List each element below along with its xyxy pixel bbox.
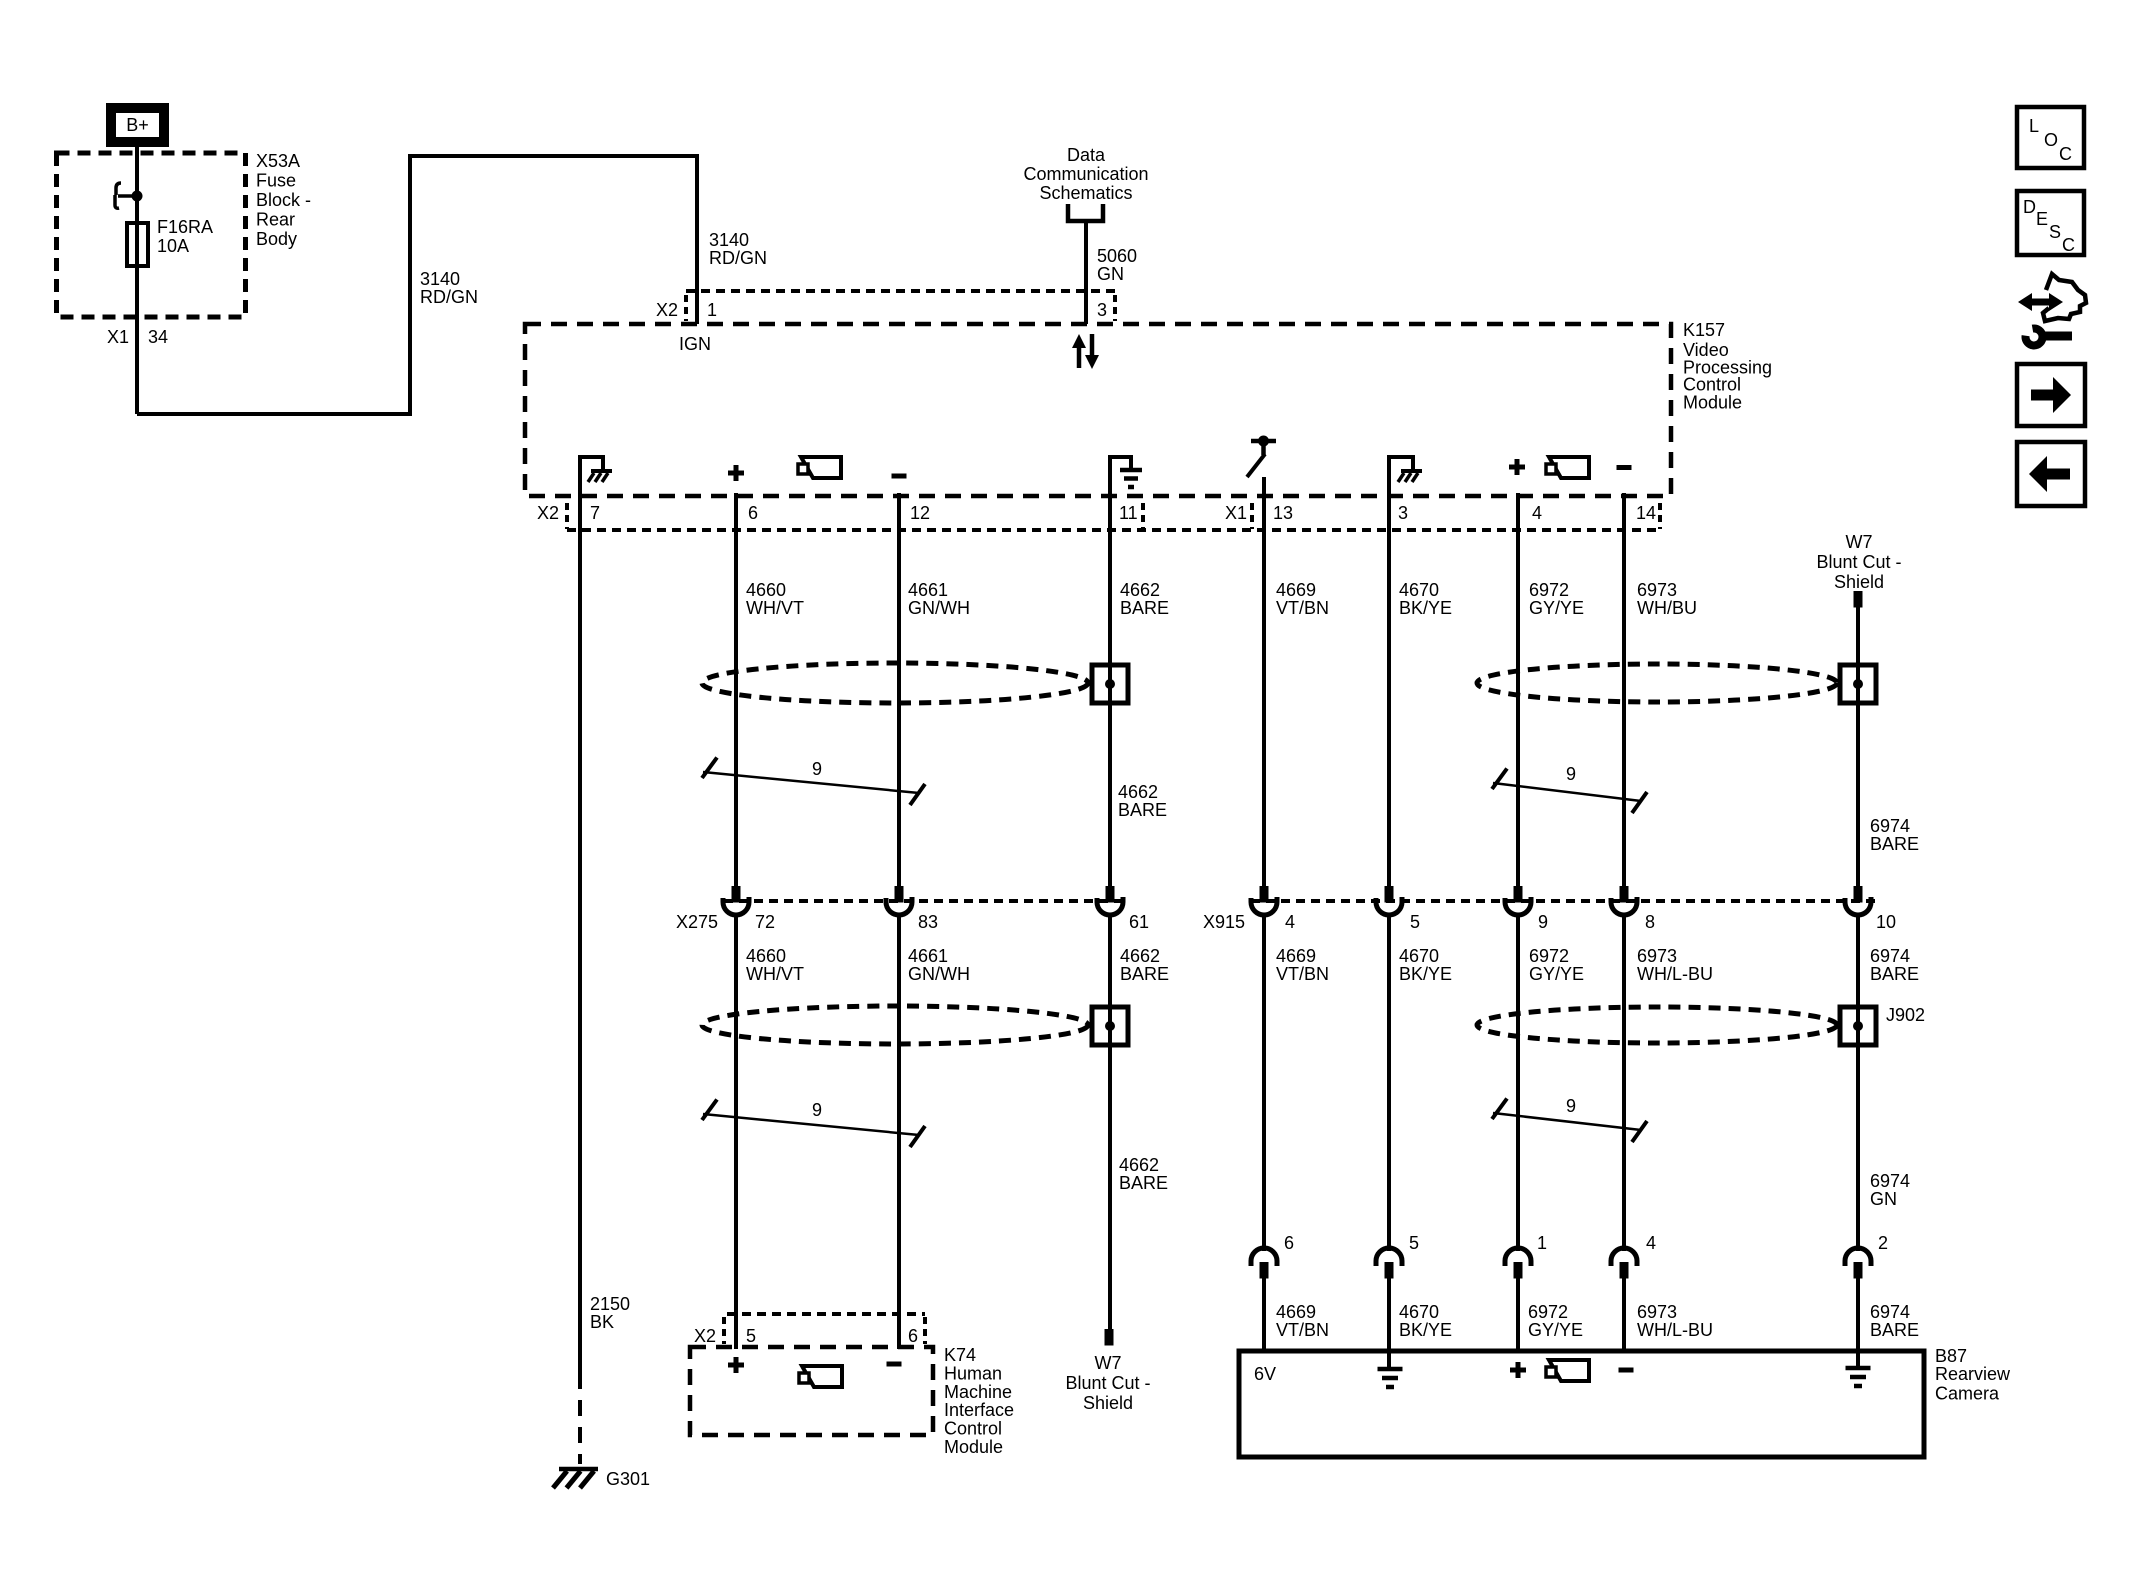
svg-text:B+: B+ (126, 115, 149, 135)
label W7 Blunt Cut Shield (top) (1816, 532, 1901, 592)
svg-text:2150: 2150 (590, 1294, 630, 1314)
pigtail connector pin 1 (1505, 1248, 1531, 1266)
wire 4669 into B87 (1262, 1278, 1266, 1352)
svg-text:Control: Control (944, 1419, 1002, 1439)
inline connector pin 83 (895, 886, 904, 903)
label 4670 BK/YE (3) (1399, 1302, 1452, 1340)
pin 7 signal ground symbol (580, 457, 612, 482)
svg-text:5060: 5060 (1097, 246, 1137, 266)
svg-text:6973: 6973 (1637, 1302, 1677, 1322)
wire 5060 GN (1084, 221, 1088, 324)
svg-text:1: 1 (1537, 1233, 1547, 1253)
svg-text:Module: Module (1683, 393, 1742, 413)
junction dot (132, 191, 143, 202)
svg-text:O: O (2044, 130, 2058, 150)
label 6972 GY/YE (1529, 580, 1584, 618)
svg-text:W7: W7 (1846, 532, 1873, 552)
wire 6973 mid (1622, 915, 1626, 1251)
pigtail connector pin 4 (1611, 1248, 1637, 1266)
svg-text:GN: GN (1870, 1189, 1897, 1209)
inline connector pin 8 (1620, 886, 1629, 903)
svg-text:RD/GN: RD/GN (420, 287, 478, 307)
svg-text:BARE: BARE (1119, 1173, 1168, 1193)
icon box arrow left (2017, 442, 2085, 506)
twisted pair ellipse lower left (702, 1006, 1088, 1044)
B87 minus (1619, 1368, 1634, 1373)
svg-text:4661: 4661 (908, 946, 948, 966)
svg-text:VT/BN: VT/BN (1276, 1320, 1329, 1340)
svg-text:4669: 4669 (1276, 946, 1316, 966)
svg-text:Data: Data (1067, 145, 1106, 165)
label W7 Blunt Cut Shield (bottom) (1065, 1353, 1150, 1413)
pin 13 ignition switch symbol (1247, 436, 1276, 478)
svg-text:GY/YE: GY/YE (1528, 1320, 1583, 1340)
power symbol B+ (106, 103, 169, 147)
svg-text:6974: 6974 (1870, 946, 1910, 966)
svg-text:8: 8 (1645, 912, 1655, 932)
inline connector pin 10 (1854, 886, 1863, 903)
svg-text:Control: Control (1683, 375, 1741, 395)
connector label X1 / 34 (107, 327, 168, 347)
svg-text:6972: 6972 (1528, 1302, 1568, 1322)
label 4670 BK/YE (1399, 580, 1452, 618)
inline connector pin 9 (1514, 886, 1523, 903)
svg-text:6974: 6974 (1870, 1302, 1910, 1322)
connector X915 row (1251, 899, 1877, 903)
label 3140 RD/GN (right) (709, 230, 767, 268)
svg-text:Fuse: Fuse (256, 171, 296, 191)
pin 6 minus (K74) (887, 1362, 902, 1367)
svg-text:IGN: IGN (679, 334, 711, 354)
svg-text:10: 10 (1876, 912, 1896, 932)
svg-text:4662: 4662 (1120, 946, 1160, 966)
svg-text:3: 3 (1398, 503, 1408, 523)
connector row X2/X1 below K157 (567, 503, 1660, 530)
label 6974 BARE (2) (1870, 816, 1919, 854)
svg-text:5: 5 (746, 1326, 756, 1346)
blunt cut stub W7 bottom (1105, 1329, 1114, 1346)
camera icon K157 left (798, 457, 841, 478)
svg-text:Human: Human (944, 1364, 1002, 1384)
svg-text:X275: X275 (676, 912, 718, 932)
svg-text:4: 4 (1285, 912, 1295, 932)
wire B+ to fuse (3140 feed) (135, 147, 139, 414)
svg-text:Interface: Interface (944, 1400, 1014, 1420)
tap clip symbol (115, 183, 133, 208)
B87 rearview camera box (1239, 1351, 1924, 1457)
wire 4669 upper (1262, 477, 1266, 887)
svg-text:Blunt Cut -: Blunt Cut - (1816, 552, 1901, 572)
svg-text:L: L (2029, 116, 2039, 136)
pin 14 minus (1617, 465, 1632, 470)
wire 4670 upper (1387, 455, 1391, 887)
svg-text:11: 11 (1119, 503, 1138, 523)
svg-text:BK: BK (590, 1312, 614, 1332)
pin 3 signal ground symbol (1390, 457, 1422, 482)
svg-text:34: 34 (148, 327, 168, 347)
icon box arrow right (2017, 364, 2085, 426)
svg-text:4669: 4669 (1276, 580, 1316, 600)
svg-text:X1: X1 (1225, 503, 1247, 523)
svg-text:4662: 4662 (1119, 1155, 1159, 1175)
label 6973 WH/BU (1637, 580, 1697, 618)
svg-text:K157: K157 (1683, 320, 1725, 340)
wire 6974 into B87 (1856, 1278, 1860, 1352)
twist symbol 9 lower right (1492, 1099, 1647, 1143)
svg-text:72: 72 (755, 912, 775, 932)
B87 chassis ground (pin 2) (1856, 1352, 1860, 1366)
K74 module dashed box (690, 1347, 933, 1435)
label 6974 GN (1870, 1171, 1910, 1209)
svg-text:3: 3 (1097, 300, 1107, 320)
heading Data Communication Schematics (1023, 145, 1148, 203)
wire 4669 mid (1262, 915, 1266, 1251)
data link arrows (1072, 334, 1099, 369)
svg-text:B87: B87 (1935, 1346, 1967, 1366)
svg-text:4669: 4669 (1276, 1302, 1316, 1322)
svg-text:Blunt Cut -: Blunt Cut - (1065, 1373, 1150, 1393)
svg-text:RD/GN: RD/GN (709, 248, 767, 268)
svg-text:GN: GN (1097, 264, 1124, 284)
svg-text:6974: 6974 (1870, 1171, 1910, 1191)
twist symbol 9 lower left (702, 1100, 925, 1148)
connector X2 row above K74 (724, 1314, 925, 1344)
ground G301 symbol (553, 1469, 598, 1488)
svg-text:4660: 4660 (746, 946, 786, 966)
twist symbol 9 upper left (702, 758, 925, 806)
svg-text:4670: 4670 (1399, 1302, 1439, 1322)
twist symbol 9 upper right (1492, 769, 1647, 814)
svg-text:6V: 6V (1254, 1364, 1276, 1384)
svg-text:BK/YE: BK/YE (1399, 1320, 1452, 1340)
svg-text:6972: 6972 (1529, 580, 1569, 600)
wire 4661 upper (897, 493, 901, 887)
svg-text:BK/YE: BK/YE (1399, 964, 1452, 984)
svg-text:GN/WH: GN/WH (908, 598, 970, 618)
wire 4662 shield upper (1108, 455, 1112, 887)
twisted pair ellipse upper right (1477, 664, 1837, 702)
label 4661 GN/WH (908, 580, 970, 618)
label 4669 VT/BN (1276, 580, 1329, 618)
wire 4662 shield lower (1108, 915, 1112, 1329)
svg-text:GY/YE: GY/YE (1529, 964, 1584, 984)
camera icon B87 (1546, 1360, 1589, 1381)
label 4662 BARE (2) (1118, 782, 1167, 820)
svg-text:83: 83 (918, 912, 938, 932)
label 4660 WH/VT (2) (746, 946, 804, 984)
svg-text:13: 13 (1273, 503, 1293, 523)
svg-text:BARE: BARE (1120, 598, 1169, 618)
label 4662 BARE (3) (1120, 946, 1169, 984)
label 4662 BARE (4) (1119, 1155, 1168, 1193)
svg-text:4660: 4660 (746, 580, 786, 600)
icon wiring harness repair (2018, 274, 2086, 345)
svg-text:BARE: BARE (1118, 800, 1167, 820)
svg-text:VT/BN: VT/BN (1276, 964, 1329, 984)
svg-text:3140: 3140 (420, 269, 460, 289)
svg-text:G301: G301 (606, 1469, 650, 1489)
connector X275 row (724, 899, 1126, 903)
wire 2150 BK dashed end (578, 1373, 582, 1464)
svg-text:BK/YE: BK/YE (1399, 598, 1452, 618)
svg-text:F16RA: F16RA (157, 217, 213, 237)
svg-text:6974: 6974 (1870, 816, 1910, 836)
pin 6 plus (728, 465, 744, 481)
svg-text:X53A: X53A (256, 151, 300, 171)
svg-text:4670: 4670 (1399, 946, 1439, 966)
svg-text:D: D (2023, 197, 2036, 217)
B87 earth ground (pin 5) (1387, 1352, 1391, 1367)
wire 2150 BK (578, 455, 582, 1373)
svg-text:5: 5 (1409, 1233, 1419, 1253)
label 6974 BARE (4) (1870, 1302, 1919, 1340)
svg-text:BARE: BARE (1120, 964, 1169, 984)
pin 11 chassis ground symbol (1110, 457, 1142, 487)
wire 6973 upper (1622, 493, 1626, 887)
inline connector pin 5 (1385, 886, 1394, 903)
svg-text:Block -: Block - (256, 190, 311, 210)
svg-text:4662: 4662 (1118, 782, 1158, 802)
label 6973 WH/L-BU (2) (1637, 946, 1713, 984)
svg-text:WH/VT: WH/VT (746, 598, 804, 618)
shield termination box J902 (1840, 1007, 1876, 1045)
svg-text:BARE: BARE (1870, 964, 1919, 984)
label 5060 GN (1097, 246, 1137, 284)
svg-text:Shield: Shield (1834, 572, 1884, 592)
pigtail connector pin 2 (1845, 1248, 1871, 1266)
svg-text:6: 6 (1284, 1233, 1294, 1253)
svg-text:K74: K74 (944, 1345, 976, 1365)
svg-text:Camera: Camera (1935, 1384, 2000, 1404)
svg-text:C: C (2059, 144, 2072, 164)
inline connector pin 61 (1106, 886, 1115, 903)
svg-text:J902: J902 (1886, 1005, 1925, 1025)
wire 4670 mid (1387, 915, 1391, 1251)
label 4660 WH/VT (746, 580, 804, 618)
shield termination box lower (4662) (1092, 1007, 1128, 1045)
camera icon K74 (799, 1366, 842, 1387)
wire 6974 mid (1856, 915, 1860, 1251)
label F16RA 10A (157, 217, 213, 256)
svg-text:61: 61 (1129, 912, 1149, 932)
label 6972 GY/YE (2) (1529, 946, 1584, 984)
svg-text:9: 9 (1566, 1096, 1576, 1116)
svg-text:Shield: Shield (1083, 1393, 1133, 1413)
label 6972 GY/YE (3) (1528, 1302, 1583, 1340)
wire 6974 upper (1856, 607, 1860, 887)
svg-text:2: 2 (1878, 1233, 1888, 1253)
svg-text:WH/L-BU: WH/L-BU (1637, 1320, 1713, 1340)
svg-text:1: 1 (707, 300, 717, 320)
svg-text:7: 7 (590, 503, 600, 523)
twisted pair ellipse upper left (702, 663, 1088, 703)
svg-text:WH/BU: WH/BU (1637, 598, 1697, 618)
svg-text:GN/WH: GN/WH (908, 964, 970, 984)
twisted pair ellipse lower right (1477, 1007, 1837, 1043)
wire 6972 mid (1516, 915, 1520, 1251)
svg-text:9: 9 (1538, 912, 1548, 932)
label 6974 BARE (3) (1870, 946, 1919, 984)
svg-text:9: 9 (1566, 764, 1576, 784)
svg-text:4670: 4670 (1399, 580, 1439, 600)
svg-text:9: 9 (812, 1100, 822, 1120)
svg-text:Schematics: Schematics (1039, 183, 1132, 203)
svg-text:VT/BN: VT/BN (1276, 598, 1329, 618)
fuse block X53A dashed box (57, 153, 246, 317)
svg-text:14: 14 (1636, 503, 1656, 523)
svg-text:6973: 6973 (1637, 580, 1677, 600)
icon box DESC (2017, 191, 2084, 255)
svg-text:4: 4 (1532, 503, 1542, 523)
fuse F16RA (127, 223, 148, 266)
svg-text:4: 4 (1646, 1233, 1656, 1253)
pin 5 plus (K74) (728, 1357, 744, 1373)
svg-text:Communication: Communication (1023, 164, 1148, 184)
wire 6973 into B87 (1622, 1278, 1626, 1352)
svg-text:W7: W7 (1095, 1353, 1122, 1373)
label X53A Fuse Block - Rear Body (256, 151, 311, 249)
pigtail connector pin 6 (1251, 1248, 1277, 1266)
svg-text:5: 5 (1410, 912, 1420, 932)
inline connector pin 72 (732, 886, 741, 903)
shield termination box upper (6974) (1840, 665, 1876, 703)
connector X2 row (pins 1,3) (686, 291, 1115, 321)
svg-text:E: E (2036, 209, 2048, 229)
svg-text:Rearview: Rearview (1935, 1364, 2011, 1384)
svg-text:6: 6 (748, 503, 758, 523)
icon box LOC (2017, 107, 2084, 168)
label 4669 VT/BN (3) (1276, 1302, 1329, 1340)
svg-text:GY/YE: GY/YE (1529, 598, 1584, 618)
off-page bracket (1068, 204, 1103, 221)
label K74 Human Machine Interface Control Module (944, 1345, 1014, 1457)
label K157 Video Processing Control Module (1683, 320, 1772, 413)
svg-text:X1: X1 (107, 327, 129, 347)
svg-text:X2: X2 (656, 300, 678, 320)
label B87 Rearview Camera (1935, 1346, 2011, 1404)
svg-text:3140: 3140 (709, 230, 749, 250)
wire 4670 into B87 (1387, 1278, 1391, 1352)
svg-text:WH/VT: WH/VT (746, 964, 804, 984)
label 2150 BK (590, 1294, 630, 1332)
svg-text:WH/L-BU: WH/L-BU (1637, 964, 1713, 984)
svg-text:S: S (2049, 222, 2061, 242)
label 4662 BARE (1) (1120, 580, 1169, 618)
K157 module dashed box (525, 324, 1671, 496)
camera icon K157 right (1546, 457, 1589, 478)
svg-text:Module: Module (944, 1437, 1003, 1457)
blunt cut stub W7 top (1854, 591, 1863, 608)
pin 12 minus (892, 474, 907, 479)
wire 6972 into B87 (1516, 1278, 1520, 1352)
svg-text:C: C (2062, 235, 2075, 255)
B87 plus (1510, 1362, 1526, 1378)
label 4669 VT/BN (2) (1276, 946, 1329, 984)
label 3140 RD/GN (left) (420, 269, 478, 307)
shield termination box upper (4662) (1092, 665, 1128, 703)
svg-text:Rear: Rear (256, 210, 295, 230)
svg-text:6973: 6973 (1637, 946, 1677, 966)
svg-text:4661: 4661 (908, 580, 948, 600)
svg-text:12: 12 (910, 503, 930, 523)
svg-text:10A: 10A (157, 236, 189, 256)
svg-text:6: 6 (908, 1326, 918, 1346)
svg-text:BARE: BARE (1870, 834, 1919, 854)
svg-text:X2: X2 (537, 503, 559, 523)
svg-text:6972: 6972 (1529, 946, 1569, 966)
wire 4660 upper (734, 493, 738, 887)
label 6973 WH/L-BU (3) (1637, 1302, 1713, 1340)
wire 4661 lower (897, 915, 901, 1349)
wire 6972 upper (1516, 493, 1520, 887)
label 4661 GN/WH (2) (908, 946, 970, 984)
svg-text:X2: X2 (694, 1326, 716, 1346)
pigtail connector pin 5 (1376, 1248, 1402, 1266)
svg-text:BARE: BARE (1870, 1320, 1919, 1340)
svg-text:4662: 4662 (1120, 580, 1160, 600)
label 4670 BK/YE (2) (1399, 946, 1452, 984)
pin 4 plus (1509, 459, 1525, 475)
wire 3140 RD/GN fuse to K157 (137, 156, 697, 414)
svg-text:X915: X915 (1203, 912, 1245, 932)
wire 4660 lower (734, 915, 738, 1349)
svg-text:9: 9 (812, 759, 822, 779)
svg-text:Machine: Machine (944, 1382, 1012, 1402)
svg-text:Body: Body (256, 229, 297, 249)
inline connector pin 4 (1260, 886, 1269, 903)
